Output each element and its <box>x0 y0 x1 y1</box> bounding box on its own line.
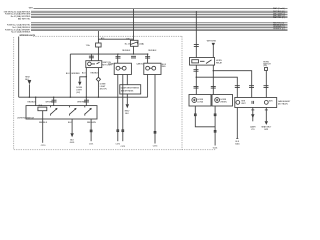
svg-text:INTERIOR LIGHTS: INTERIOR LIGHTS <box>20 35 36 37</box>
svg-text:WHT (Cont'd): WHT (Cont'd) <box>273 7 285 10</box>
svg-text:RED/BLK: RED/BLK <box>148 50 157 52</box>
svg-text:CARGO: CARGO <box>136 62 143 65</box>
svg-text:(NO TACH): (NO TACH) <box>278 102 288 105</box>
svg-text:A16: A16 <box>101 37 104 40</box>
svg-text:BZR: BZR <box>264 129 268 131</box>
svg-text:(G5): (G5) <box>263 65 267 67</box>
svg-text:GRN/RED: GRN/RED <box>71 73 80 75</box>
svg-text:BAT WHT/YEL: BAT WHT/YEL <box>18 17 30 20</box>
svg-text:RED/BLK: RED/BLK <box>39 122 48 124</box>
svg-text:RED/GRN: RED/GRN <box>87 122 96 124</box>
svg-text:BLU: BLU <box>66 73 70 75</box>
svg-text:G201: G201 <box>213 148 218 150</box>
svg-text:C574: C574 <box>153 145 158 147</box>
svg-text:DOME: DOME <box>108 63 114 65</box>
svg-text:G401: G401 <box>235 144 240 146</box>
svg-text:LIGHTING SWITCH: LIGHTING SWITCH <box>17 118 35 120</box>
svg-text:RED/BLK: RED/BLK <box>28 101 37 103</box>
svg-text:BLU: BLU <box>82 73 86 75</box>
svg-text:BRIGHTNESS: BRIGHTNESS <box>121 91 134 93</box>
svg-text:G401: G401 <box>70 142 75 144</box>
svg-text:BZR: BZR <box>269 101 273 103</box>
svg-text:No.13: No.13 <box>125 44 130 46</box>
svg-text:WHT/RED: WHT/RED <box>77 101 86 103</box>
svg-text:WHT/YEL (C): WHT/YEL (C) <box>273 17 285 19</box>
svg-text:C573: C573 <box>121 146 126 148</box>
svg-text:DASH BRIGHTNESS: DASH BRIGHTNESS <box>121 87 140 90</box>
svg-text:(G2): (G2) <box>76 92 80 94</box>
svg-text:(10A): (10A) <box>139 42 144 45</box>
svg-text:(ROOF): (ROOF) <box>100 89 107 91</box>
svg-text:RED/BLK: RED/BLK <box>91 73 100 75</box>
svg-text:GRN/BLK (C): GRN/BLK (C) <box>273 29 285 31</box>
svg-text:WHT/GRN: WHT/GRN <box>207 41 217 43</box>
svg-text:(LOW): (LOW) <box>198 101 204 103</box>
svg-text:WHT/BLU: WHT/BLU <box>46 101 55 103</box>
svg-text:(HIGH): (HIGH) <box>221 101 227 103</box>
svg-text:RELAY: RELAY <box>216 62 223 65</box>
svg-text:RED: RED <box>162 66 167 68</box>
svg-text:C571: C571 <box>89 144 94 146</box>
svg-text:C572: C572 <box>116 144 121 146</box>
svg-text:C570: C570 <box>41 145 46 147</box>
svg-text:RED/BLK: RED/BLK <box>122 50 131 52</box>
svg-text:No.20 (10A) GRN/BLK: No.20 (10A) GRN/BLK <box>11 31 31 34</box>
